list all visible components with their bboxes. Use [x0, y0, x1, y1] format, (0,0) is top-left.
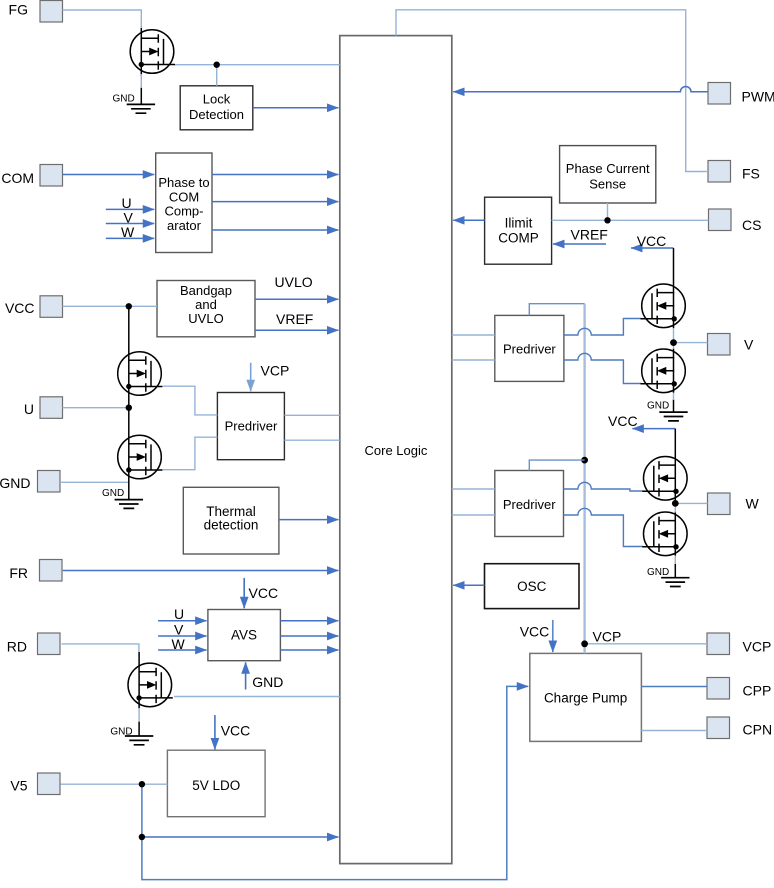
wire FG pin to Q1 gate [63, 10, 142, 29]
svg-text:CPP: CPP [743, 683, 772, 699]
svg-text:VCC: VCC [221, 723, 251, 739]
wire AVS out 3 [280, 649, 338, 651]
node CS junction [604, 217, 610, 223]
svg-text:Sense: Sense [589, 177, 626, 192]
wire Predriver V out to Q5 gate [564, 319, 642, 336]
transistor Q3 (U low) [118, 435, 163, 479]
wire Charge Pump to CPP pin [641, 686, 707, 688]
svg-text:UVLO: UVLO [275, 274, 313, 290]
wire FR pin to Core Logic [63, 570, 339, 572]
svg-text:Phase to: Phase to [158, 175, 209, 190]
wire VCC pin to Bandgap [63, 305, 158, 307]
transistor Q7 (W high) [642, 457, 687, 501]
svg-text:detection: detection [204, 518, 259, 533]
pin CPP [707, 678, 771, 700]
wire Predriver W out to Q8 gate [564, 508, 644, 546]
svg-text:Phase Current: Phase Current [566, 161, 650, 176]
svg-text:VCC: VCC [520, 624, 550, 640]
wire VREF arrow into Ilimit COMP [553, 243, 606, 245]
pin U [24, 397, 63, 419]
wire Q3 gate to Predriver U [163, 437, 217, 470]
node W phase junction [672, 500, 679, 507]
svg-text:FG: FG [9, 2, 28, 18]
block Charge Pump [530, 653, 642, 741]
svg-text:Lock: Lock [203, 92, 231, 107]
pin V5 [10, 773, 60, 795]
svg-text:RD: RD [7, 639, 27, 655]
svg-text:VCC: VCC [5, 300, 35, 316]
wire GND pin to half bridge [60, 481, 129, 483]
svg-text:5V LDO: 5V LDO [192, 778, 240, 793]
block Predriver U [217, 393, 284, 460]
svg-text:CS: CS [742, 217, 761, 233]
svg-text:VCP: VCP [261, 363, 290, 379]
wire VCC arrow to W bridge [632, 428, 675, 430]
wire comparator out 3 [212, 229, 338, 231]
svg-text:CPN: CPN [743, 722, 773, 738]
wire V5 pin to 5V LDO [61, 783, 168, 785]
wire Predriver W out to Q7 gate [564, 482, 644, 491]
wire VREF out [255, 329, 338, 331]
wire comparator out 2 [212, 201, 338, 203]
wire AVS out 1 [280, 620, 338, 622]
wire VCP arrow into Predriver U [250, 363, 252, 391]
svg-text:GND: GND [252, 674, 283, 690]
svg-text:GND: GND [110, 727, 132, 738]
wire Thermal detection out [279, 519, 339, 521]
svg-text:V: V [744, 337, 754, 353]
wire Predriver V top to VCP rail [529, 304, 584, 316]
svg-text:COM: COM [169, 190, 199, 205]
wire VCC arrow to V bridge [631, 247, 674, 249]
block OSC [485, 564, 580, 609]
ground at U half-bridge [115, 500, 143, 509]
wire GND arrow into AVS [245, 662, 247, 689]
svg-text:Predriver: Predriver [225, 419, 278, 434]
wire RD pin to Q4 gate [62, 644, 139, 652]
wire Core Logic to Predriver V in 2 [452, 359, 495, 361]
wire Predriver V out to Q6 gate [564, 353, 642, 383]
pin FS [708, 161, 760, 183]
wire junction drop to Lock Detection [216, 65, 218, 86]
node V5 junction [139, 781, 145, 787]
transistor Q4 (RD) [128, 663, 173, 707]
wire Predriver U out 2 [284, 439, 339, 441]
wire Lock Detection out [253, 107, 339, 109]
pin RD [7, 633, 60, 655]
pin FR [9, 560, 62, 582]
svg-text:VCC: VCC [608, 413, 638, 429]
pin V [708, 334, 755, 356]
wire W input to AVS [158, 649, 207, 651]
wire Phase Current Sense to CS net [607, 203, 609, 220]
wire U half-bridge rail [128, 306, 130, 499]
svg-text:VCP: VCP [593, 629, 622, 645]
wire PWM pin to Core Logic [453, 87, 708, 92]
wire Core Logic to Predriver W in 2 [452, 514, 495, 516]
wire VCP node to VCP pin [585, 643, 707, 645]
node FG drain junction [214, 61, 220, 67]
svg-text:U: U [174, 606, 184, 622]
wire Q2 gate to Predriver U [163, 386, 217, 415]
node U junction [126, 405, 132, 411]
svg-text:Core Logic: Core Logic [365, 443, 428, 458]
wire Q1 channel segments [140, 28, 142, 104]
svg-text:PWM: PWM [742, 89, 774, 105]
svg-text:FR: FR [9, 565, 28, 581]
wire AVS out 2 [280, 635, 338, 637]
wire VCC arrow into 5V LDO [214, 715, 216, 749]
svg-text:COM: COM [1, 170, 34, 186]
block Thermal detection [183, 487, 279, 554]
wire VCP rail [583, 304, 585, 654]
node V5 branch junction [139, 834, 145, 840]
ground at Q4 [125, 736, 153, 745]
svg-text:VCP: VCP [743, 639, 772, 655]
ground at W half-bridge [661, 578, 689, 587]
wire Q1 drain to Core Logic [174, 64, 340, 66]
wire Core Logic to Predriver V in 1 [452, 334, 495, 336]
wire CS pin to Ilimit COMP [552, 219, 709, 221]
wire Charge Pump to CPN pin [641, 730, 707, 732]
transistor Q5 (V high) [641, 284, 686, 328]
wire V input to AVS [158, 635, 207, 637]
svg-text:GND: GND [647, 567, 669, 578]
wire V node to V pin [674, 342, 708, 344]
svg-text:and: and [195, 297, 217, 312]
svg-text:W: W [121, 224, 135, 240]
svg-text:GND: GND [647, 401, 669, 412]
wire V input to comparator [106, 223, 154, 225]
block Ilimit COMP [485, 197, 552, 264]
wire comparator out 1 [212, 174, 338, 176]
wire Q4 channel segments [138, 652, 140, 736]
transistor Q8 (W low) [642, 512, 687, 556]
svg-text:VREF: VREF [571, 227, 608, 243]
wire VCP rail to Predriver W top [529, 460, 584, 470]
pin CS [709, 209, 762, 233]
svg-text:Predriver: Predriver [503, 497, 556, 512]
pin COM [1, 165, 62, 187]
svg-text:Charge Pump: Charge Pump [544, 691, 627, 706]
wire Ilimit COMP out [453, 219, 484, 221]
wire VCC arrow into AVS [243, 578, 245, 608]
transistor Q2 (U high) [118, 352, 163, 396]
block Phase to COM Comparator [156, 153, 212, 253]
svg-text:UVLO: UVLO [188, 311, 223, 326]
svg-text:Predriver: Predriver [503, 342, 556, 357]
wire Q4 drain to Core Logic [174, 696, 340, 698]
pin VCC [5, 296, 63, 318]
svg-text:Comp-: Comp- [164, 204, 203, 219]
block Predriver V [495, 315, 564, 381]
block Bandgap and UVLO [157, 281, 255, 337]
pin FG [9, 1, 63, 23]
transistor Q1 (FG) [130, 30, 175, 74]
wire VCC arrow into Charge Pump [552, 620, 554, 652]
ground at V half-bridge [659, 412, 687, 421]
block Predriver W [495, 471, 564, 537]
wire W node to W pin [675, 502, 707, 504]
block Lock Detection [180, 86, 253, 130]
pin VCP [707, 633, 771, 655]
transistor Q6 (V low) [641, 349, 686, 393]
svg-text:arator: arator [167, 218, 202, 233]
wire UVLO out [255, 298, 338, 300]
svg-text:VCC: VCC [249, 585, 279, 601]
svg-text:U: U [24, 401, 34, 417]
block AVS [208, 610, 281, 661]
svg-text:W: W [746, 496, 760, 512]
ground at Q1 [127, 104, 155, 113]
svg-text:GND: GND [102, 488, 124, 499]
wire V5 branch into Core Logic [142, 836, 339, 838]
wire W input to comparator [106, 237, 154, 239]
svg-text:VREF: VREF [276, 311, 313, 327]
node VCP rail junction at Predriver W [581, 457, 588, 464]
wire Core Logic top to FS pin [396, 10, 708, 172]
block Phase Current Sense [560, 146, 656, 203]
wire U input to AVS [158, 620, 207, 622]
svg-text:Bandgap: Bandgap [180, 283, 232, 298]
wire U pin to half bridge [63, 407, 129, 409]
block U10 Core Logic [340, 36, 452, 864]
pin PWM [708, 83, 774, 105]
wire OSC out [453, 584, 484, 586]
node VCP pin junction [581, 640, 588, 647]
svg-text:GND: GND [0, 475, 31, 491]
svg-text:OSC: OSC [517, 579, 547, 594]
svg-text:W: W [172, 636, 186, 652]
pin GND [0, 471, 60, 493]
wire Predriver U out 1 [284, 414, 339, 416]
wire U input to comparator [106, 208, 154, 210]
node VCC junction [126, 303, 132, 309]
svg-text:Detection: Detection [189, 107, 244, 122]
wire Core Logic to Predriver W in 1 [452, 488, 495, 490]
svg-text:GND: GND [113, 94, 135, 105]
wire V5 node to charge pump [142, 686, 528, 879]
svg-text:COMP: COMP [498, 231, 539, 246]
pin CPN [707, 717, 772, 739]
wire W half-bridge rail [674, 429, 676, 578]
svg-text:VCC: VCC [637, 233, 667, 249]
wire V half-bridge rail [673, 248, 675, 412]
block 5V LDO [167, 750, 265, 817]
svg-text:AVS: AVS [231, 628, 257, 643]
node V phase junction [670, 339, 677, 346]
svg-text:FS: FS [742, 166, 760, 182]
svg-text:Ilimit: Ilimit [505, 215, 533, 230]
svg-text:V5: V5 [10, 778, 27, 794]
wire COM pin to comparator [63, 174, 155, 176]
pin W [708, 493, 760, 515]
